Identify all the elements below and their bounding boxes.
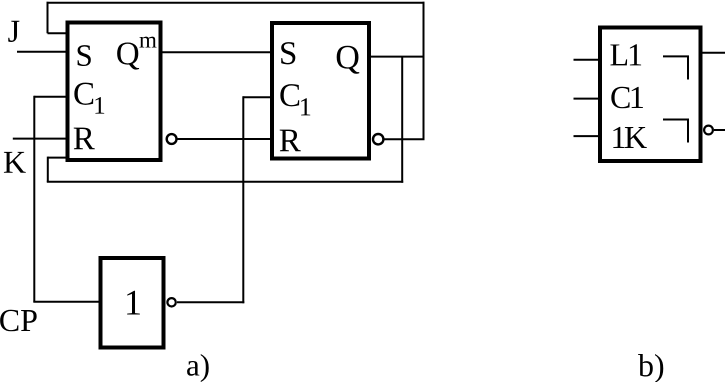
pin label C1 of part b [611,87,643,109]
subscript 1 of FF1 [95,97,104,114]
wire inverter output to FF2 C1 input [243,96,271,98]
wire input L1 [574,59,601,61]
inversion bubble on part b output [704,126,713,135]
wire inverted output of part b [714,129,725,131]
wire CP to FF1 C1 input [34,96,67,98]
wire CP vertical [33,96,35,302]
wire K input [13,138,67,140]
inversion bubble on inverter output [167,298,175,306]
pin label Q of FF1 [117,42,139,69]
wire input C1 [574,98,601,100]
wire inverter output vertical [242,96,244,303]
wire output Q of part b [702,52,725,54]
postponed output symbol upper [663,56,688,79]
pin label R of FF2 [280,130,301,152]
pin label S of FF1 [78,45,91,66]
pin label C of FF2 [280,84,299,106]
pin label S of FF2 [281,42,295,64]
flip-flop FF1 (master) [68,23,161,161]
superscript m of FF1 [139,37,156,48]
wire inverted Q output [384,138,425,140]
inverter gate 1 [101,258,164,348]
subscript 1 of FF2 [301,98,310,115]
caption a) [187,354,209,382]
JK flip-flop symbol box (part b) [600,28,701,162]
node label J [8,21,19,42]
wire into FF1 upper S input [48,32,68,34]
inversion bubble on FF2 output [373,134,383,144]
label 1 of inverter [127,291,140,315]
wire top feedback right vertical [423,2,425,139]
flip-flop FF2 (slave) [272,23,369,159]
wire input 1K [574,135,601,137]
wire Qm output to FF2 S input [161,51,271,53]
node label CP [0,310,37,332]
caption b) [638,354,663,382]
postponed output symbol lower [663,120,688,143]
wire inverter output horizontal [177,301,244,303]
wire feedback left vertical [47,157,49,182]
wire CP to inverter input [33,301,101,303]
wire inverted Qm output to FF2 R input [177,138,271,140]
wire top feedback horizontal [47,2,425,4]
wire feedback into FF1 lower R input [48,157,67,159]
pin label Q of FF2 [337,46,360,74]
wire J input [17,51,67,53]
wire top feedback left vertical [47,2,49,34]
pin label R of FF1 [74,128,95,150]
wire Q feedback right vertical [401,57,403,183]
pin label C of FF1 [74,83,93,105]
node label K [4,152,26,173]
pin label 1K [613,127,646,148]
wire Q output [370,56,425,58]
wire bottom feedback horizontal [47,181,403,183]
inversion bubble on FF1 output [167,134,177,144]
pin label L1 [610,44,641,65]
